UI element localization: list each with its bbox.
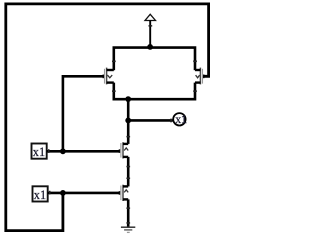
wire: output node vertical	[127, 99, 130, 144]
node: input B junction dot	[60, 190, 66, 196]
input pin x1 (A)	[32, 144, 47, 160]
power supply VDD symbol	[145, 14, 156, 47]
wire: right PMOS drain lead	[194, 60, 197, 70]
transistor Q1 p-channel FET left	[103, 68, 114, 85]
svg-text:x1: x1	[175, 112, 187, 126]
wire: Q3 source to Q4 drain	[127, 157, 130, 187]
svg-text:x1: x1	[33, 145, 45, 159]
wire: Q4 source to ground	[127, 199, 130, 226]
node: source rail junction dot	[125, 96, 131, 102]
node: VDD junction dot	[147, 44, 153, 50]
svg-text:x1: x1	[34, 188, 46, 202]
wire: input A up to Q1 gate	[63, 76, 104, 151]
wire: PMOS source rail down to common node	[114, 83, 195, 100]
transistor Q4 n-channel FET lower	[119, 185, 129, 201]
wire: input A to Q3 gate	[47, 150, 120, 153]
wire: top rail between PMOS drains	[114, 48, 195, 62]
node: output junction dot	[125, 118, 131, 124]
wire: input B loop around canvas to Q2 gate	[6, 4, 209, 231]
node: input A junction dot	[60, 148, 66, 154]
wire: input B to Q4 gate	[48, 192, 120, 195]
wire: left PMOS drain lead	[113, 60, 116, 70]
transistor Q2 p-channel FET right (mirrored)	[195, 68, 205, 85]
ground	[121, 222, 135, 232]
input pin x1 (B)	[33, 186, 48, 202]
output probe x1	[173, 112, 187, 126]
wire: output to probe	[128, 119, 173, 122]
transistor Q3 n-channel FET upper	[119, 142, 129, 158]
